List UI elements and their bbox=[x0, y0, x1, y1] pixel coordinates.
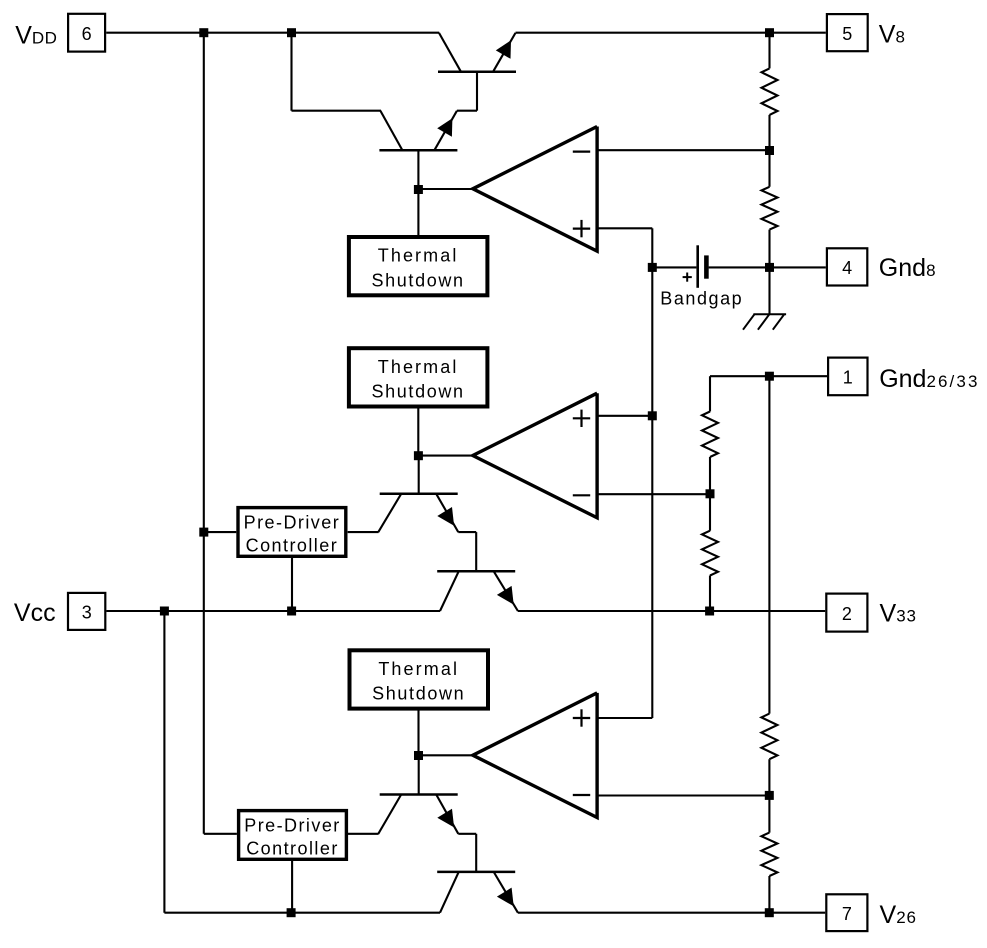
svg-text:7: 7 bbox=[842, 904, 852, 924]
svg-text:Thermal: Thermal bbox=[378, 246, 459, 266]
svg-text:Thermal: Thermal bbox=[378, 357, 459, 377]
svg-text:Vcc: Vcc bbox=[14, 599, 56, 627]
svg-text:Pre-Driver: Pre-Driver bbox=[244, 513, 341, 533]
svg-text:Bandgap: Bandgap bbox=[660, 288, 743, 308]
svg-text:Shutdown: Shutdown bbox=[371, 270, 464, 290]
svg-text:Shutdown: Shutdown bbox=[372, 684, 465, 704]
svg-text:5: 5 bbox=[842, 24, 852, 44]
svg-text:Controller: Controller bbox=[246, 839, 339, 859]
svg-text:Thermal: Thermal bbox=[378, 659, 459, 679]
svg-text:1: 1 bbox=[843, 368, 853, 388]
svg-text:Shutdown: Shutdown bbox=[371, 382, 464, 402]
svg-text:Pre-Driver: Pre-Driver bbox=[244, 816, 341, 836]
svg-text:2: 2 bbox=[842, 604, 852, 624]
svg-text:6: 6 bbox=[82, 24, 92, 44]
svg-text:Controller: Controller bbox=[246, 536, 339, 556]
svg-text:3: 3 bbox=[82, 603, 92, 623]
svg-text:4: 4 bbox=[842, 258, 852, 278]
